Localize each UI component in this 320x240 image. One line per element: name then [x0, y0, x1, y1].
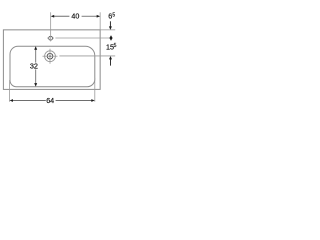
tap centerline extension to right — [59, 55, 115, 57]
dim 6.5 arrowhead down — [109, 26, 112, 29]
washbasin outer rim rectangle — [3, 30, 100, 90]
dim 40 extension line right — [99, 12, 101, 30]
dim 15.5 arrow shaft below — [110, 59, 112, 66]
diamond double arrowhead at overflow line — [109, 35, 112, 41]
tap hole center dot — [49, 55, 51, 57]
tap hole inner circle — [47, 53, 53, 59]
dim 64 extension line left — [9, 80, 11, 102]
tap hole crosshair horizontal — [43, 55, 58, 57]
dim 40 line left segment — [53, 15, 69, 17]
svg-text:32: 32 — [30, 61, 38, 70]
dim 32 arrowhead down — [34, 83, 37, 87]
overflow hole small circle — [49, 36, 53, 40]
dim 64 arrowhead left — [10, 99, 14, 102]
overflow centerline extension to right — [55, 37, 109, 39]
svg-text:64: 64 — [46, 96, 54, 105]
dim 15.5 arrowhead up — [109, 56, 112, 59]
dim 6.5 arrow shaft — [109, 21, 111, 27]
dim 32 line lower segment — [35, 69, 37, 84]
dim 40 arrowhead right — [97, 15, 101, 18]
svg-text:5: 5 — [114, 43, 117, 49]
dim 64 extension line right — [94, 78, 96, 102]
dim 64 line left segment — [12, 100, 46, 102]
dim 40 extension line left — [50, 12, 52, 41]
top edge extension line to right margin — [100, 29, 115, 31]
overflow hole horizontal tick — [47, 37, 49, 39]
dim 32 arrowhead up — [34, 46, 37, 50]
dim 40 arrowhead left — [51, 15, 55, 18]
tap hole outer circle — [45, 51, 56, 62]
dim 40 line right segment — [82, 15, 98, 17]
tap hole crosshair vertical — [49, 49, 51, 64]
basin bowl rounded outline — [10, 46, 95, 86]
dim 32 line upper segment — [35, 49, 37, 63]
svg-text:40: 40 — [71, 12, 79, 21]
svg-text:5: 5 — [112, 12, 115, 18]
dim 64 arrowhead right — [91, 99, 95, 102]
dim 64 line right segment — [56, 100, 93, 102]
